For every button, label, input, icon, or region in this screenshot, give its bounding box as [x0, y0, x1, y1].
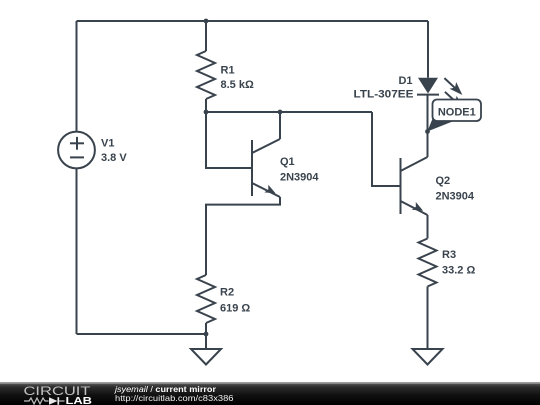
svg-text:8.5 kΩ: 8.5 kΩ — [221, 79, 254, 91]
wire R2 bottom lead — [205, 323, 207, 334]
diode D1 (LED) — [417, 78, 439, 95]
wire top horizontal rail — [77, 20, 429, 22]
resistor R2 — [197, 275, 215, 323]
svg-text:LAB: LAB — [66, 396, 93, 405]
wire R1 bottom lead — [205, 99, 207, 112]
node dot D1 / Q2 collector — [425, 129, 430, 134]
logo squiggle resistor — [24, 398, 49, 404]
wire mid horizontal rail — [206, 111, 372, 113]
svg-text:Q2: Q2 — [436, 175, 451, 187]
svg-text:619 Ω: 619 Ω — [220, 303, 250, 315]
wire Q1 base drop — [206, 112, 252, 168]
wire D1 anode lead — [427, 21, 429, 78]
node label NODE1 box — [433, 100, 482, 122]
wire R1 top lead — [205, 21, 207, 51]
footer bar — [0, 383, 540, 405]
wire Q2 collector lead — [427, 132, 429, 158]
svg-text:R3: R3 — [442, 249, 456, 261]
footer bar top highlight — [0, 382, 540, 384]
resistor R3 — [419, 239, 437, 287]
node dot top rail / R1 — [204, 19, 209, 24]
wire ground stem left — [205, 334, 207, 349]
svg-text:2N3904: 2N3904 — [280, 172, 319, 184]
resistor R1 — [197, 51, 215, 99]
svg-text:V1: V1 — [101, 138, 114, 150]
svg-text:R1: R1 — [221, 65, 235, 77]
node dot R2 bottom / ground — [204, 332, 209, 337]
ground right — [413, 349, 443, 365]
wire Q1 collector lead — [279, 112, 281, 139]
svg-text:Q1: Q1 — [280, 156, 295, 168]
logo diode symbol — [49, 397, 65, 405]
node dot mid rail / Q1 collector — [278, 110, 283, 115]
svg-text:NODE1: NODE1 — [438, 106, 476, 118]
wire Q1 emitter route to R2 — [206, 197, 280, 275]
node label NODE1 callout tail — [427, 118, 455, 132]
wire Q2 base drop — [372, 112, 401, 186]
wire Q2 emitter lead — [427, 215, 429, 239]
wire V1 minus lead — [76, 168, 78, 334]
transistor Q2 — [401, 157, 428, 215]
transistor Q1 — [252, 139, 280, 197]
node dot mid rail / R1 bottom — [204, 110, 209, 115]
wire top-left vertical (V1 plus lead) — [76, 21, 78, 132]
LED light arrow 1 — [444, 78, 462, 95]
ground left — [191, 349, 221, 365]
voltage source V1 — [58, 132, 95, 169]
svg-text:http://circuitlab.com/c83x386: http://circuitlab.com/c83x386 — [115, 393, 234, 403]
svg-text:33.2 Ω: 33.2 Ω — [442, 265, 475, 277]
svg-text:3.8 V: 3.8 V — [101, 152, 127, 164]
svg-text:LTL-307EE: LTL-307EE — [354, 89, 414, 101]
wire R3 bottom lead — [427, 287, 429, 350]
wire D1 cathode to node — [427, 95, 429, 132]
svg-text:D1: D1 — [398, 75, 412, 87]
LED light arrow 2 — [445, 92, 463, 109]
svg-text:2N3904: 2N3904 — [436, 191, 475, 203]
wire bottom horizontal — [77, 333, 207, 335]
svg-text:R2: R2 — [220, 287, 234, 299]
